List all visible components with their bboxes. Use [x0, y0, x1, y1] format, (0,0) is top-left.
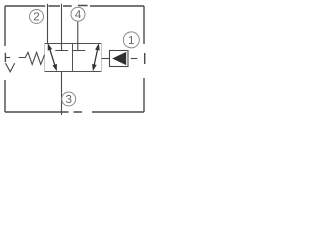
drain vent V: [6, 63, 15, 72]
port circle 4: [71, 7, 85, 21]
port tick left (drain port on envelope): [4, 53, 6, 62]
hydraulic pilot triangle: [112, 52, 126, 65]
port 4 digit: [75, 10, 81, 18]
dashed drain line (spring chamber): [6, 57, 10, 59]
flow arrow left box: [48, 43, 57, 71]
port 1 digit: [129, 36, 134, 44]
valve position divider: [72, 44, 74, 72]
blocked port left box: [55, 4, 68, 51]
wire valve to pilot actuator: [102, 58, 110, 60]
blocked port right box: [73, 21, 85, 50]
port 3 digit: [66, 95, 71, 103]
port 2 digit: [34, 12, 39, 20]
port circle 3: [62, 92, 76, 106]
wire port 3 from valve: [61, 72, 63, 116]
wire port 2 to valve: [47, 4, 49, 44]
valve body boxes: [45, 44, 102, 72]
port circle 2: [30, 10, 44, 24]
envelope boundary frame: [5, 6, 144, 113]
dashed pilot line to port 1: [131, 58, 138, 60]
port tick right (pilot port on envelope): [144, 53, 146, 64]
pilot actuator box: [110, 51, 129, 67]
port circle 1: [123, 32, 139, 48]
flow arrow right box: [92, 43, 100, 71]
return spring: [19, 52, 45, 64]
